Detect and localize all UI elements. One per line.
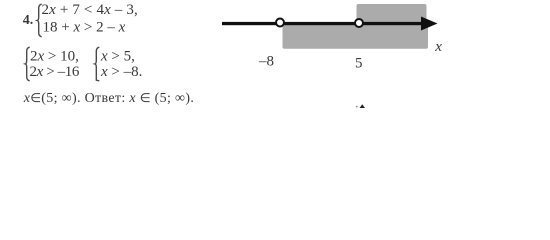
svg-text:x > –8.: x > –8. (100, 64, 142, 80)
svg-text:5: 5 (355, 56, 363, 72)
open circle at 5 (355, 19, 363, 27)
svg-text:x > 5,: x > 5, (100, 49, 135, 65)
open circle at -8 (276, 19, 284, 27)
shaded region above axis for x > 5 (357, 4, 427, 23)
brace of system 2 (25, 47, 29, 81)
svg-text:2x + 7 < 4x – 3,: 2x + 7 < 4x – 3, (42, 2, 138, 18)
cut-off glyph at bottom edge (360, 104, 365, 108)
axis arrowhead (421, 17, 438, 31)
svg-text:18 + x > 2 – x: 18 + x > 2 – x (43, 20, 126, 36)
brace of system 3 (95, 47, 99, 81)
svg-text:x: x (434, 39, 442, 55)
svg-text:2x > –16: 2x > –16 (30, 64, 80, 80)
svg-text:2x > 10,: 2x > 10, (30, 49, 79, 65)
brace of system 1 (37, 4, 41, 37)
faint speck left of cut-off glyph (356, 106, 358, 108)
svg-text:–8: –8 (258, 54, 274, 70)
svg-text:4.: 4. (23, 13, 34, 28)
svg-text:x∈(5; ∞). Ответ: x ∈ (5; ∞).: x∈(5; ∞). Ответ: x ∈ (5; ∞). (23, 91, 195, 106)
shaded region below axis for x > -8 (283, 25, 429, 49)
number line axis (222, 22, 430, 25)
